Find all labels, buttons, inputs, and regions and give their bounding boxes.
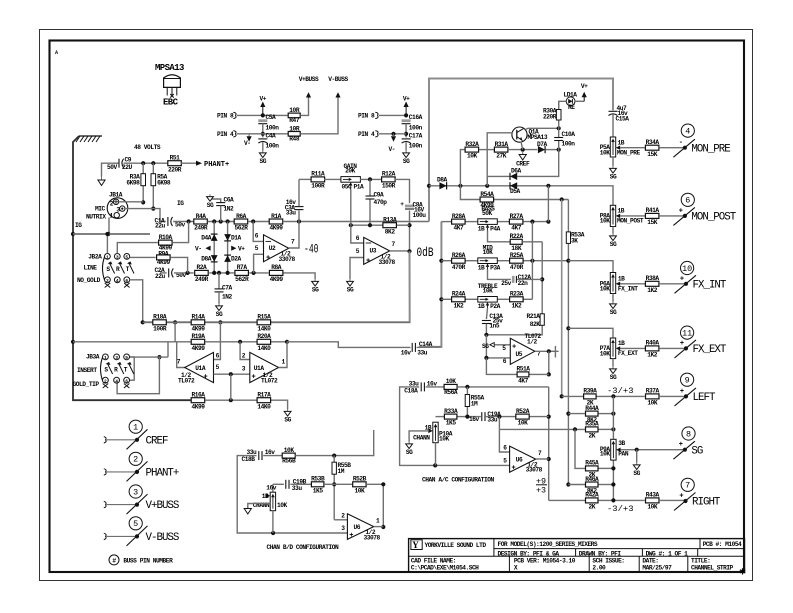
svg-text:C7A: C7A (222, 285, 233, 292)
svg-text:33u: 33u (409, 380, 420, 387)
svg-text:1N2: 1N2 (222, 293, 233, 300)
svg-text:PHANT+: PHANT+ (146, 468, 179, 480)
svg-text:IG: IG (75, 222, 82, 229)
resistor R42A (585, 492, 599, 511)
svg-text:SG: SG (347, 287, 354, 294)
wire C6A bottom (220, 206, 222, 222)
svg-text:SG: SG (610, 309, 617, 316)
resistor R51 (168, 155, 182, 174)
diode D7A (538, 146, 545, 153)
svg-text:1K5: 1K5 (446, 420, 457, 427)
ground SG P5A (610, 166, 617, 181)
svg-text:470R: 470R (510, 264, 524, 271)
wire mic pin1 shield (108, 218, 110, 235)
resistor R41A (645, 207, 659, 226)
wire C9 to R51 (124, 162, 168, 164)
capacitor capacitor C16A (402, 119, 411, 123)
svg-text:10R: 10R (289, 107, 300, 114)
svg-text:R8A: R8A (271, 264, 282, 271)
wire left ground bus (73, 136, 191, 400)
wire into C2A (160, 272, 167, 274)
svg-text:EBC: EBC (163, 98, 179, 108)
wire JB2A to R9A (130, 256, 156, 258)
svg-text:CHANNEL_STRIP: CHANNEL_STRIP (691, 564, 734, 571)
resistor R10A (159, 234, 173, 252)
svg-text:U3: U3 (370, 248, 377, 255)
svg-text:DRAWN BY: PFI: DRAWN BY: PFI (579, 550, 622, 557)
wire R22A right (522, 241, 542, 243)
svg-text:22u: 22u (155, 222, 166, 229)
wire R6A to R1A (248, 221, 270, 223)
resistor R26A (452, 252, 466, 271)
svg-text:SG: SG (691, 445, 702, 457)
svg-text:2.00: 2.00 (592, 564, 606, 571)
bus pin 2 PHANT+ (104, 452, 179, 481)
svg-text:1M: 1M (471, 400, 478, 407)
svg-text:C17A: C17A (409, 133, 423, 140)
svg-text:18K: 18K (511, 245, 522, 252)
output jack MON_PRE (673, 124, 730, 157)
wire Q1A collector (526, 128, 559, 129)
wire P7A wiper to R40A (620, 347, 645, 349)
resistor R52B (353, 476, 367, 495)
svg-text:RE: RE (568, 104, 575, 111)
wire R55B leads (333, 456, 335, 462)
svg-text:D8A: D8A (201, 256, 212, 263)
wire R41A to jack (659, 215, 685, 217)
svg-text:R51A: R51A (516, 366, 530, 373)
junction R5A / mic pin3 (151, 207, 155, 211)
wire A/C fb to R35A row (498, 417, 500, 430)
svg-text:P1A: P1A (354, 184, 365, 191)
svg-text:10K: 10K (600, 217, 611, 224)
svg-text:INSERT: INSERT (77, 367, 97, 374)
capacitor capacitor C3A (295, 207, 304, 210)
diode D4A (211, 234, 218, 241)
svg-text:PIN 8: PIN 8 (217, 113, 234, 120)
wire R8A to SG (284, 273, 316, 279)
svg-text:YORKVILLE SOUND LTD: YORKVILLE SOUND LTD (425, 542, 487, 549)
resistor R31A (494, 141, 508, 160)
junction R13A right (407, 223, 411, 227)
wire U2 pin5 input (254, 254, 264, 273)
svg-text:8: 8 (686, 429, 691, 439)
power V+ (LED) (581, 83, 588, 101)
svg-text:V-BUSS: V-BUSS (146, 532, 179, 544)
wire R48 to V-BUSS (300, 97, 338, 134)
svg-text:P2A: P2A (490, 303, 501, 310)
wire A/C input loop (400, 387, 510, 466)
power V- (left) (247, 134, 252, 142)
capacitor capacitor C18B (259, 451, 262, 460)
wire R7A to R8A (249, 272, 268, 274)
wire JB3A pin5-6 link (130, 357, 135, 380)
wire R10A to C1A node (172, 222, 188, 243)
svg-text:P4A: P4A (490, 225, 501, 232)
wire pin8 row right (379, 114, 406, 116)
wire R46A row (568, 484, 585, 486)
svg-text:220R: 220R (543, 114, 557, 121)
wire C8A bottom (409, 211, 411, 252)
svg-text:6K98: 6K98 (157, 180, 171, 187)
svg-text:C9: C9 (125, 156, 132, 163)
svg-text:IG: IG (177, 200, 184, 207)
wire R56A right (457, 386, 548, 388)
wire output cross (554, 346, 556, 358)
svg-text:D7A: D7A (537, 141, 548, 148)
resistor R23A (510, 291, 524, 310)
wire C3A riser (298, 210, 300, 221)
wire U3 pin6 (351, 225, 364, 243)
svg-text:10K: 10K (600, 451, 611, 458)
wire R33A row (436, 416, 445, 418)
svg-text:1B: 1B (262, 493, 269, 500)
wire JB3A return loop (117, 357, 159, 394)
wire R9A to C2A node (171, 257, 188, 273)
resistor R37A (646, 388, 660, 407)
capacitor capacitor C18A (421, 382, 424, 391)
svg-text:SG: SG (403, 158, 410, 165)
wire pot bottom ac (435, 443, 437, 466)
junction insert send (157, 355, 161, 359)
capacitor capacitor C19A (482, 412, 485, 421)
svg-text:U5: U5 (516, 351, 523, 358)
capacitor capacitor C1A (168, 217, 173, 226)
svg-text:10K: 10K (467, 153, 478, 160)
resistor R3A (126, 174, 145, 187)
svg-text:33078: 33078 (279, 256, 296, 263)
svg-text:15K: 15K (647, 151, 658, 158)
svg-text:7: 7 (685, 481, 690, 491)
wire post bus (561, 200, 563, 397)
wire U1A-1 pin6 (214, 322, 221, 359)
svg-text:+: + (679, 207, 683, 215)
capacitor capacitor C9A (366, 196, 375, 199)
svg-text:+: + (349, 532, 353, 540)
svg-text:MON_POST: MON_POST (691, 212, 736, 224)
wire B/D input loop (237, 456, 347, 533)
ground SG P8A (610, 234, 617, 249)
svg-text:33078: 33078 (364, 535, 381, 542)
svg-text:-3/+3: -3/+3 (607, 504, 634, 514)
connector JB1A MIC (86, 192, 128, 221)
svg-text:10K: 10K (518, 420, 529, 427)
wire R30A leads (558, 120, 560, 128)
svg-text:R56A: R56A (444, 389, 458, 396)
svg-text:4: 4 (685, 126, 690, 136)
node V- clamp (205, 246, 210, 251)
svg-text:PIN 4: PIN 4 (358, 131, 375, 138)
output jack LEFT (675, 373, 716, 406)
wire JB2A pin1 up (106, 234, 108, 253)
svg-text:1B: 1B (618, 340, 625, 347)
transistor package MPSA13 (TO-92 outline) (155, 63, 184, 108)
svg-text:P3A: P3A (490, 264, 501, 271)
svg-text:FOR MODEL(S):1200_SERIES_MIXER: FOR MODEL(S):1200_SERIES_MIXERS (498, 541, 598, 548)
svg-text:4K99: 4K99 (191, 403, 205, 410)
wire Q1A emitter (521, 142, 523, 150)
svg-text:1B: 1B (618, 139, 625, 146)
svg-text:JB2A: JB2A (88, 254, 102, 261)
wire mid column R21A (541, 242, 543, 314)
svg-text:R43A: R43A (646, 492, 660, 499)
resistor R44A (585, 405, 599, 424)
resistor R45A (585, 460, 599, 479)
svg-text:1B: 1B (478, 303, 485, 310)
svg-text:C16A: C16A (409, 114, 423, 121)
svg-text:R28A: R28A (452, 213, 466, 220)
svg-text:100u: 100u (413, 212, 427, 219)
wire R2A to R7A (209, 272, 234, 274)
svg-text:R34A: R34A (646, 139, 660, 146)
capacitor C12A (512, 276, 515, 283)
svg-text:U2: U2 (269, 245, 276, 252)
svg-text:+: + (366, 258, 370, 266)
wire RIGHT row (549, 499, 586, 501)
svg-text:SG: SG (610, 241, 617, 248)
wire U6bd pin2 (334, 519, 347, 521)
capacitor capacitor C9 (119, 159, 124, 168)
power V+ (260, 96, 267, 116)
ground CREF (519, 151, 526, 160)
potentiometer P9A PAN (611, 439, 621, 460)
svg-text:R11A: R11A (311, 171, 325, 178)
svg-text:1N2: 1N2 (224, 206, 235, 213)
svg-text:Y: Y (412, 540, 419, 550)
resistor R46A (585, 476, 599, 495)
svg-text:3B: 3B (618, 440, 625, 447)
svg-text:+: + (680, 388, 684, 396)
svg-text:4K7: 4K7 (511, 225, 522, 232)
wire FX_INT feed (568, 261, 613, 273)
wire JB3A row (130, 356, 168, 358)
junction C13A/R21A (484, 333, 488, 337)
svg-text:R40A: R40A (646, 340, 660, 347)
wire 0dB bus (143, 251, 410, 322)
resistor R27A (509, 213, 523, 232)
wire JB2A to R10A (117, 243, 158, 254)
svg-text:V+: V+ (581, 83, 588, 90)
svg-text:U6: U6 (516, 456, 523, 463)
svg-text:SG: SG (610, 174, 617, 181)
svg-text:249R: 249R (195, 276, 209, 283)
svg-text:V+: V+ (260, 96, 267, 103)
svg-text:-40: -40 (304, 243, 319, 257)
svg-text:R52A: R52A (516, 408, 530, 415)
svg-text:10K: 10K (647, 400, 658, 407)
ground SG P10A (406, 442, 413, 457)
wire FX_EXT feed (568, 328, 613, 338)
svg-text:470p: 470p (374, 199, 388, 206)
svg-text:C10A: C10A (562, 131, 576, 138)
wire U5 feedback (548, 351, 550, 374)
svg-text:R1A: R1A (271, 213, 282, 220)
svg-text:R56B: R56B (282, 458, 296, 465)
resistor R34A (645, 139, 659, 158)
svg-text:DWG #: 1 OF 1: DWG #: 1 OF 1 (646, 550, 689, 557)
wire C19B to R53B (290, 483, 311, 485)
wire C10A column (558, 128, 560, 137)
svg-text:R4A: R4A (196, 213, 207, 220)
wire IG row (73, 233, 150, 235)
svg-text:R24A: R24A (452, 291, 466, 298)
wire P6A bottom (612, 294, 614, 302)
svg-text:PIN 8: PIN 8 (358, 113, 375, 120)
svg-text:470R: 470R (452, 264, 466, 271)
svg-text:R13A: R13A (383, 217, 397, 224)
svg-text:1K2: 1K2 (647, 287, 658, 294)
wire R52B right (366, 484, 383, 527)
svg-text:V+: V+ (403, 96, 410, 103)
svg-text:100n: 100n (266, 125, 280, 132)
svg-text:10K: 10K (647, 504, 658, 511)
svg-text:1K5: 1K5 (313, 487, 324, 494)
wire R53B to R52B (324, 483, 353, 485)
svg-text:100R: 100R (153, 325, 167, 332)
wire C4A to SG (262, 142, 264, 150)
capacitor capacitor C2A (169, 268, 174, 277)
wire C7A bottom (218, 292, 220, 303)
LED LD1A (564, 91, 578, 111)
svg-text:FX_INT: FX_INT (618, 286, 638, 293)
junction shield / IG row (106, 232, 110, 236)
svg-text:0dB: 0dB (417, 246, 434, 260)
resistor R33A (444, 408, 458, 427)
svg-text:JB3A: JB3A (86, 354, 100, 361)
wire U6ac pin6 (499, 429, 509, 452)
svg-text:100n: 100n (409, 143, 423, 150)
wire B/D pot wiper to C19B (273, 483, 284, 485)
wire pan bus (612, 396, 614, 439)
svg-text:R54A: R54A (480, 191, 494, 198)
svg-text:33u: 33u (286, 210, 297, 217)
wire C2A to R2A (174, 272, 194, 274)
svg-text:C4A: C4A (266, 133, 277, 140)
svg-text:DESIGN BY: PFI_&_GA: DESIGN BY: PFI_&_GA (498, 550, 560, 557)
potentiometer P4A (478, 219, 498, 233)
capacitor capacitor C5A (258, 119, 267, 123)
svg-text:NO_GOLD: NO_GOLD (77, 277, 101, 284)
svg-text:14K0: 14K0 (257, 403, 271, 410)
svg-text:10K: 10K (600, 286, 611, 293)
wire U2 output (289, 222, 299, 249)
wire U2 pin6 input (253, 222, 263, 242)
svg-text:1B: 1B (618, 275, 625, 282)
svg-text:MAR/25/97: MAR/25/97 (642, 564, 672, 571)
svg-text:100n: 100n (562, 141, 576, 148)
svg-text:50V: 50V (107, 164, 118, 171)
svg-text:+: + (266, 254, 270, 262)
svg-text:D5A: D5A (510, 188, 521, 195)
svg-text:R44A: R44A (585, 405, 599, 412)
resistor R22A (510, 233, 524, 252)
svg-text:+: + (252, 374, 256, 382)
wire P4A wiper to R22A (488, 230, 511, 242)
potentiometer CHANN (B/D) (266, 492, 276, 511)
svg-text:+: + (680, 275, 684, 283)
wire + inputs row (214, 373, 250, 375)
bus pin 3 V+BUSS (104, 485, 179, 514)
wire C17A to SG (405, 142, 407, 150)
svg-text:562R: 562R (235, 276, 249, 283)
svg-text:20K: 20K (345, 168, 356, 175)
svg-text:SG: SG (406, 449, 413, 456)
wire P7A bottom (612, 359, 614, 367)
resistor R6A (234, 213, 248, 232)
diode D6A (510, 173, 517, 180)
svg-text:1: 1 (133, 423, 138, 433)
svg-text:10K: 10K (284, 447, 295, 454)
wire R16A row (205, 399, 256, 401)
wire R34A to jack (659, 147, 685, 149)
op-amp U2 (264, 235, 289, 262)
svg-text:4K99: 4K99 (269, 225, 283, 232)
svg-text:R32A: R32A (465, 141, 479, 148)
svg-text:100R: 100R (311, 183, 325, 190)
diode D8A (211, 255, 218, 262)
power V+ (right) (403, 96, 410, 116)
wire R12A to C8A riser (395, 179, 410, 203)
svg-text:R37A: R37A (646, 388, 660, 395)
output jack RIGHT (674, 478, 721, 510)
svg-text:MON_POST: MON_POST (617, 217, 644, 224)
capacitor capacitor C19B (286, 480, 289, 489)
svg-text:10K: 10K (446, 378, 457, 385)
svg-text:R48: R48 (289, 135, 300, 142)
wire P9A wiper to SG jack (621, 449, 685, 451)
svg-text:D1A: D1A (231, 235, 242, 242)
resistor R53B (311, 476, 325, 495)
junction R7A/U2 pin5 (252, 271, 256, 275)
svg-text:11: 11 (682, 328, 692, 338)
junction C2A/R9A (186, 271, 190, 275)
capacitor capacitor C14A (412, 343, 415, 352)
ground SG C4A (259, 151, 266, 166)
wire LED (559, 101, 567, 108)
wire U5 pin5 (495, 344, 511, 346)
svg-text:FX_EXT: FX_EXT (618, 350, 638, 357)
svg-text:R27A: R27A (510, 213, 524, 220)
wire R40A to jack (659, 347, 686, 349)
wire mic pin2 (119, 201, 144, 203)
svg-text:R38A: R38A (646, 275, 660, 282)
wire U1A-2 output (279, 342, 287, 368)
resistor R39A (583, 388, 597, 407)
svg-text:+: + (680, 340, 684, 348)
resistor 10R (288, 107, 300, 118)
resistor R15A (257, 314, 271, 333)
wire U6bd output (374, 526, 384, 528)
svg-text:4K7: 4K7 (518, 378, 529, 385)
svg-text:1/2: 1/2 (527, 339, 538, 346)
power V+BUSS (306, 92, 311, 97)
wire + to R16A node (230, 374, 232, 400)
svg-text:10R: 10R (289, 125, 300, 132)
junction left bus / IG row (71, 232, 75, 236)
svg-text:D4A: D4A (201, 235, 212, 242)
svg-text:FX_INT: FX_INT (693, 279, 727, 291)
wire clip diode row D8A (429, 186, 613, 206)
svg-text:SG: SG (482, 343, 489, 350)
connector JB2A LINE (77, 254, 134, 288)
svg-text:33078: 33078 (379, 259, 396, 266)
svg-text:LINE: LINE (84, 265, 98, 272)
svg-text:TL072: TL072 (261, 378, 278, 385)
resistor R7A (235, 264, 249, 283)
wire LEFT row (562, 395, 584, 397)
svg-text:FX_EXT: FX_EXT (693, 344, 727, 356)
svg-text:R9A: R9A (158, 250, 169, 257)
